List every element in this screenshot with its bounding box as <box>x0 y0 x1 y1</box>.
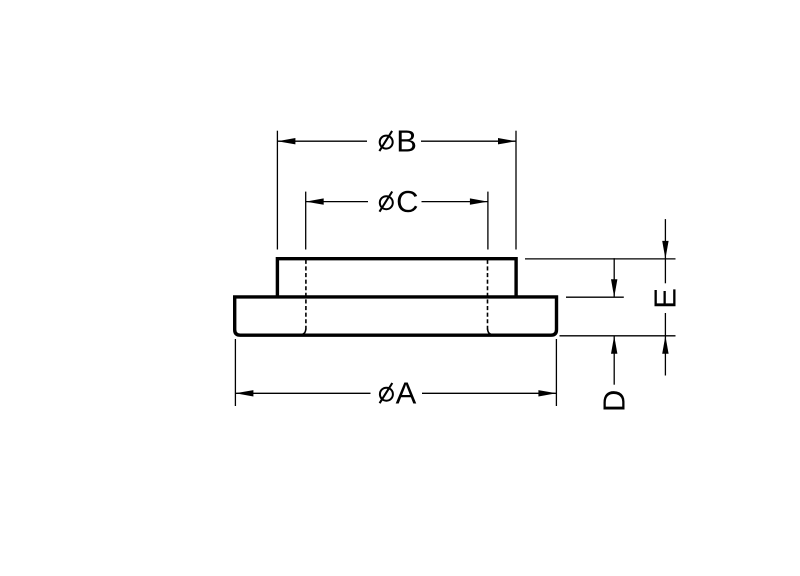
arrowhead E down <box>662 241 668 259</box>
svg-text:D: D <box>597 390 632 412</box>
svg-text:C: C <box>396 184 418 219</box>
extension line øC left <box>305 192 307 250</box>
svg-text:E: E <box>648 288 683 309</box>
arrowhead E up <box>662 336 668 354</box>
arrowhead øC left <box>306 198 324 204</box>
dimension line øB right segment <box>421 140 516 142</box>
arrowhead øA left <box>235 390 253 396</box>
dimension D lower leader <box>613 336 615 385</box>
dimension E upper leader <box>664 219 666 283</box>
arrowhead øC right <box>470 198 488 204</box>
extension line mid-right (top of flange) <box>566 296 624 298</box>
dimension D upper leader <box>613 258 615 297</box>
arrowhead øB left <box>277 138 295 144</box>
arrowhead D down <box>611 279 617 297</box>
bore hidden line left bottom hook <box>303 329 306 334</box>
bore hidden line left (diameter C) <box>305 260 307 330</box>
label øA diameter symbol <box>380 383 393 403</box>
extension line top-right (top of upper step) <box>525 258 676 260</box>
extension line øA left <box>234 339 236 406</box>
arrowhead D up <box>611 336 617 354</box>
bore hidden line right (diameter C) <box>487 260 489 330</box>
extension line øA right <box>555 339 557 406</box>
dimension line øB left segment <box>277 140 367 142</box>
dimension line øC right segment <box>422 201 488 203</box>
svg-text:B: B <box>396 124 417 159</box>
dimension line øC left segment <box>306 201 368 203</box>
dimension line øA right segment <box>422 392 556 394</box>
label øC diameter symbol <box>380 192 393 212</box>
dimension E lower leader <box>664 313 666 376</box>
extension line øB left <box>276 131 278 250</box>
arrowhead øB right <box>498 138 516 144</box>
label øB diameter symbol <box>379 131 392 151</box>
flange body (lower step, diameter A) <box>235 297 557 335</box>
svg-text:A: A <box>396 375 417 410</box>
extension line øB right <box>515 131 517 250</box>
extension line øC right <box>487 192 489 250</box>
dimension line øA left segment <box>235 392 370 394</box>
bore hidden line right bottom hook <box>488 329 491 334</box>
extension line bottom-right (bottom of flange) <box>560 335 676 337</box>
arrowhead øA right <box>538 390 556 396</box>
upper step body (diameter B) <box>277 259 516 297</box>
